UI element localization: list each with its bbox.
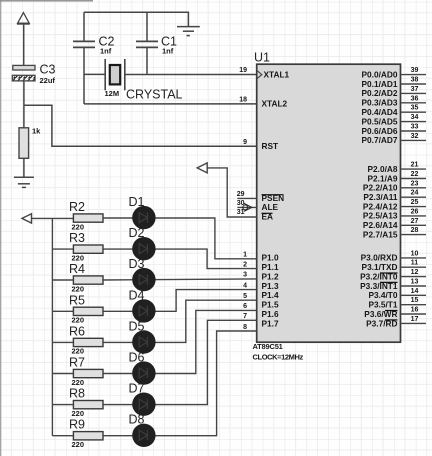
svg-text:D7: D7 [129,382,145,396]
LED D8 [132,424,155,447]
power symbol VCC arrow [17,13,30,24]
arrow LED rail [22,214,32,223]
scan edge artifact top [0,0,93,2]
svg-text:CLOCK=12MHz: CLOCK=12MHz [253,353,304,362]
resistor R4 [73,276,103,284]
svg-text:7: 7 [243,313,247,320]
resistor R6 [73,338,103,346]
svg-text:6: 6 [243,303,247,310]
wire rail to R9 [52,435,73,437]
svg-text:R8: R8 [69,387,85,401]
svg-text:16: 16 [411,307,419,314]
wire rail to R6 [52,341,73,343]
capacitor C2 [73,12,95,104]
svg-text:R3: R3 [69,231,85,245]
pin stub 10 [401,257,427,259]
svg-text:ALE: ALE [262,202,279,212]
svg-text:RST: RST [262,141,279,151]
pin stub 27 [401,224,427,226]
ground [177,27,200,36]
svg-text:38: 38 [411,77,419,84]
pin stub 25 [401,206,427,208]
svg-text:29: 29 [237,191,245,198]
svg-text:9: 9 [243,139,247,146]
wire ground rail top [84,12,188,26]
capacitor C3 [12,65,35,81]
svg-text:D8: D8 [129,413,145,427]
pin stub 24 [401,196,427,198]
wire RST net [24,105,257,146]
svg-text:22uf: 22uf [40,76,56,85]
svg-text:R4: R4 [69,262,85,276]
svg-text:14: 14 [411,288,419,295]
svg-text:36: 36 [411,95,419,102]
svg-text:2: 2 [243,261,247,268]
svg-text:31: 31 [237,209,245,216]
svg-text:220: 220 [72,409,85,418]
svg-text:220: 220 [72,378,85,387]
crystal X1 [105,59,125,90]
resistor 1k [19,128,29,159]
wire rail to R3 [52,248,73,250]
wire rail bus [51,218,53,435]
svg-text:D5: D5 [129,319,145,333]
svg-text:3: 3 [243,272,247,279]
svg-text:D1: D1 [129,195,145,209]
ALE clock-out symbol [243,203,252,211]
resistor R7 [73,369,103,377]
svg-text:220: 220 [72,222,85,231]
wire crystal to C2 [84,73,105,75]
resistor R8 [73,401,103,409]
svg-text:34: 34 [411,114,419,121]
pin stub 36 [401,102,427,104]
wire D1 to P1.0 [103,218,257,259]
wire XTAL2 [84,103,257,105]
pin stub 39 [401,74,427,76]
svg-text:22: 22 [411,171,419,178]
svg-text:220: 220 [72,284,85,293]
wire XTAL1 [125,74,257,76]
svg-text:12: 12 [411,269,419,276]
pin stub 38 [401,83,427,85]
pin stub 30 [237,206,256,208]
wire rail to R2 [32,217,74,219]
pin stub 16 [401,313,427,315]
wire junction to 1k [23,105,25,128]
svg-text:CRYSTAL: CRYSTAL [126,88,183,102]
svg-text:33: 33 [411,124,419,131]
wire rail to R5 [52,310,73,312]
wire C3 to junction [23,81,25,105]
svg-text:1nf: 1nf [162,47,174,56]
LED D5 [132,330,155,353]
pin stub 33 [401,130,427,132]
scan edge artifact left [0,0,2,456]
svg-text:15: 15 [411,297,419,304]
svg-text:37: 37 [411,86,419,93]
svg-text:220: 220 [72,440,85,449]
svg-text:R5: R5 [69,293,85,307]
svg-text:23: 23 [411,180,419,187]
svg-text:D4: D4 [129,288,145,302]
wire rail to R4 [52,279,73,281]
svg-text:D3: D3 [129,257,145,271]
svg-text:5: 5 [243,293,247,300]
svg-text:1k: 1k [32,127,41,136]
svg-text:C3: C3 [40,63,56,77]
svg-text:35: 35 [411,105,419,112]
LED D4 [132,299,155,322]
pin stub 34 [401,121,427,123]
wire VCC to C3 [23,25,25,66]
wire D4 to P1.3 [103,290,257,312]
LED D6 [132,361,155,384]
svg-text:1nf: 1nf [100,47,112,56]
pin stub 17 [401,322,427,324]
svg-text:R6: R6 [69,324,85,338]
svg-text:U1: U1 [254,51,270,65]
svg-text:17: 17 [411,316,419,323]
resistor R5 [73,307,103,315]
wire rail to R7 [52,373,73,375]
svg-text:P2.7/A15: P2.7/A15 [363,230,398,240]
svg-text:28: 28 [411,227,419,234]
svg-text:10: 10 [411,250,419,257]
svg-text:XTAL1: XTAL1 [264,69,290,79]
svg-text:XTAL2: XTAL2 [262,99,288,109]
wire D5 to P1.4 [103,300,257,342]
pin stub 32 [401,139,427,141]
svg-text:18: 18 [239,96,247,103]
wire EA [207,168,257,217]
svg-text:R7: R7 [69,356,85,370]
pin stub 13 [401,285,427,287]
svg-text:25: 25 [411,199,419,206]
LED D2 [132,237,155,260]
op-amp U1 AT89C51 MCU body [257,64,401,342]
pin stub 35 [401,111,427,113]
svg-text:AT89C51: AT89C51 [253,342,283,351]
pin stub 28 [401,234,427,236]
svg-text:11: 11 [411,260,419,267]
resistor R3 [73,245,103,253]
LED D3 [132,268,155,291]
svg-text:220: 220 [72,316,85,325]
svg-text:R2: R2 [69,200,85,214]
wire D8 to P1.7 [103,331,257,436]
pin stub 26 [401,215,427,217]
svg-text:27: 27 [411,218,419,225]
wire 1k to ground [23,158,25,177]
svg-text:D2: D2 [129,226,145,240]
LED D7 [132,393,155,416]
pin stub 12 [401,276,427,278]
pin stub 37 [401,92,427,94]
capacitor C1 [136,12,158,74]
wire D6 to P1.5 [103,310,257,373]
svg-text:P1.7: P1.7 [262,318,279,328]
svg-text:R9: R9 [69,418,85,432]
XTAL1 clock chevron [257,71,262,79]
svg-text:12M: 12M [105,89,120,98]
svg-text:24: 24 [411,190,419,197]
svg-text:4: 4 [243,282,247,289]
svg-text:13: 13 [411,279,419,286]
pin stub 29 [237,197,256,199]
pin stub 11 [401,266,427,268]
wire D3 to P1.2 [103,279,257,280]
svg-text:8: 8 [243,324,247,331]
svg-text:26: 26 [411,208,419,215]
pin stub 15 [401,304,427,306]
wire rail to R8 [52,404,73,406]
svg-text:P0.7/AD7: P0.7/AD7 [362,135,398,145]
svg-text:D6: D6 [129,351,145,365]
resistor R2 [73,214,103,222]
wire D7 to P1.6 [103,320,257,404]
svg-text:32: 32 [411,133,419,140]
pin stub 23 [401,187,427,189]
resistor R9 [73,432,103,440]
svg-text:39: 39 [411,67,419,74]
svg-text:1: 1 [243,252,247,259]
svg-text:19: 19 [239,67,247,74]
wire D2 to P1.1 [103,249,257,269]
pin stub 14 [401,294,427,296]
LED D1 [132,206,155,229]
svg-text:21: 21 [411,162,419,169]
pin stub 21 [401,168,427,170]
pin stub 22 [401,178,427,180]
arrow to EA net [22,163,257,436]
ground [14,177,34,187]
svg-text:220: 220 [72,347,85,356]
